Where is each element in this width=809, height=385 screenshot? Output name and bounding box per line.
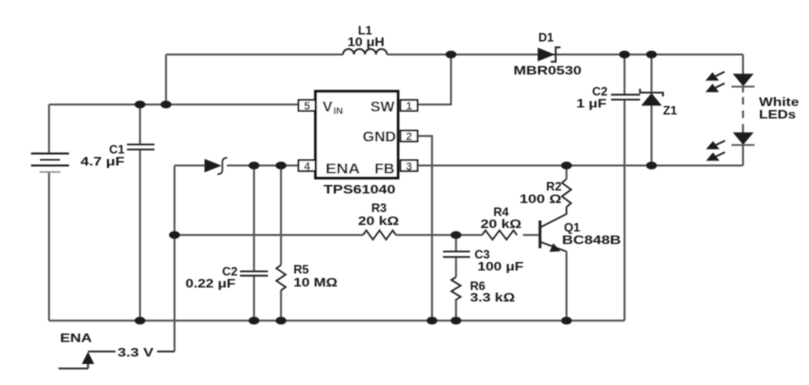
svg-text:4.7 μF: 4.7 μF [81, 155, 125, 169]
svg-text:ENA: ENA [326, 160, 361, 177]
svg-text:0.22 μF: 0.22 μF [186, 277, 236, 291]
svg-text:1 μF: 1 μF [577, 97, 607, 111]
svg-text:SW: SW [370, 99, 395, 116]
svg-text:5: 5 [304, 101, 310, 113]
svg-text:LEDs: LEDs [759, 108, 796, 122]
svg-text:FB: FB [375, 160, 395, 177]
svg-text:GND: GND [363, 129, 397, 146]
svg-text:TPS61040: TPS61040 [324, 183, 396, 197]
svg-text:3.3 V: 3.3 V [118, 346, 154, 360]
svg-text:MBR0530: MBR0530 [514, 64, 582, 78]
svg-text:100 Ω: 100 Ω [520, 192, 562, 206]
svg-text:3.3 kΩ: 3.3 kΩ [470, 291, 515, 305]
svg-text:R3: R3 [371, 201, 387, 215]
svg-text:IN: IN [334, 106, 344, 117]
svg-text:2: 2 [406, 131, 412, 143]
svg-text:3: 3 [406, 161, 412, 173]
svg-text:V: V [323, 99, 333, 116]
svg-text:100 μF: 100 μF [478, 260, 524, 274]
svg-text:10 μH: 10 μH [348, 35, 385, 49]
svg-text:ENA: ENA [60, 331, 92, 345]
svg-text:R5: R5 [294, 263, 310, 277]
svg-text:D1: D1 [538, 31, 554, 45]
svg-text:20 kΩ: 20 kΩ [358, 214, 399, 228]
svg-text:BC848B: BC848B [562, 233, 621, 247]
svg-text:10 MΩ: 10 MΩ [294, 276, 338, 290]
svg-text:1: 1 [406, 101, 412, 113]
svg-text:20 kΩ: 20 kΩ [481, 217, 522, 231]
svg-text:Z1: Z1 [663, 104, 677, 118]
svg-text:4: 4 [304, 161, 311, 173]
